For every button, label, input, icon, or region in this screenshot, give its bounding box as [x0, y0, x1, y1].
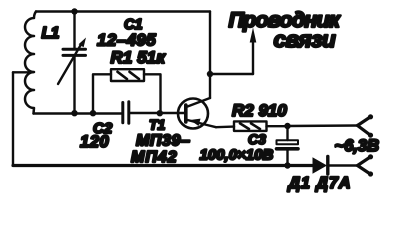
wire bottom rail — [13, 164, 313, 167]
svg-text:Д1 Д7А: Д1 Д7А — [287, 175, 352, 192]
svg-text:Т1: Т1 — [149, 117, 166, 133]
wire top rail — [36, 10, 210, 12]
diode D1 — [313, 157, 328, 175]
capacitor C3 (electrolytic) — [277, 126, 299, 166]
node junction B (C1 bottom) — [71, 110, 77, 116]
svg-text:R2 910: R2 910 — [232, 101, 287, 120]
capacitor C1 (variable) — [58, 12, 86, 114]
capacitor C2 — [123, 102, 129, 123]
svg-text:12–495: 12–495 — [97, 31, 156, 50]
wire middle rail left — [34, 112, 122, 114]
terminal fork bottom — [358, 154, 374, 176]
svg-text:С3: С3 — [248, 131, 266, 147]
wire emitter to R2 — [216, 125, 234, 128]
wire diode to bottom terminal — [329, 164, 358, 166]
wire to antenna arrow — [210, 73, 253, 75]
node junction F (R2/C3/output) — [284, 123, 290, 129]
resistor R1 — [93, 69, 161, 113]
wire middle rail right (base lead) — [130, 112, 184, 114]
node junction A (C1 top tap) — [71, 8, 77, 14]
svg-text:связи: связи — [274, 27, 337, 52]
svg-text:R1 51к: R1 51к — [111, 48, 167, 67]
transistor T1 — [178, 98, 216, 129]
arrow conductor (проводник связи) — [250, 28, 257, 75]
svg-text:L1: L1 — [42, 25, 60, 42]
svg-text:120: 120 — [80, 133, 110, 151]
svg-text:100,0×10В: 100,0×10В — [200, 147, 274, 164]
svg-text:~6,3В: ~6,3В — [335, 137, 380, 155]
wire to top output terminal — [288, 124, 358, 127]
node junction D (R1 right / base) — [157, 110, 163, 116]
svg-text:МП39–: МП39– — [136, 133, 191, 150]
svg-text:МП42: МП42 — [131, 149, 178, 166]
wire left vertical — [12, 72, 14, 165]
node junction C (R1 left) — [90, 110, 96, 116]
wire right vertical (collector riser) — [209, 12, 211, 99]
node junction E (collector tap) — [207, 71, 213, 77]
terminal fork top — [358, 114, 374, 138]
resistor R2 — [234, 121, 288, 130]
wire coil tap — [13, 71, 33, 73]
inductor L1 — [25, 12, 36, 114]
node junction G (C3 bottom) — [284, 162, 290, 168]
